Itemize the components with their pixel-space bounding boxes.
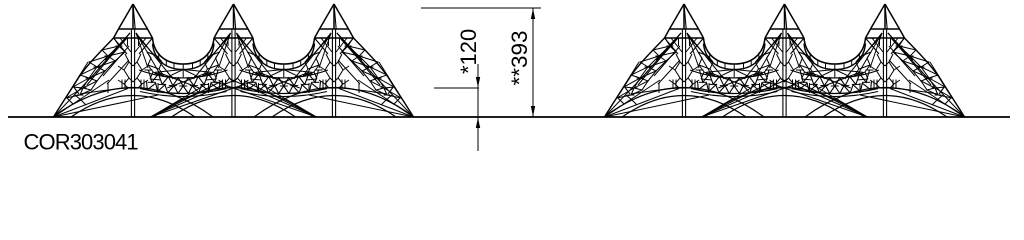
svg-text:COR303041: COR303041	[24, 130, 139, 155]
svg-text:**393: **393	[507, 30, 532, 85]
svg-text:*120: *120	[456, 29, 481, 74]
